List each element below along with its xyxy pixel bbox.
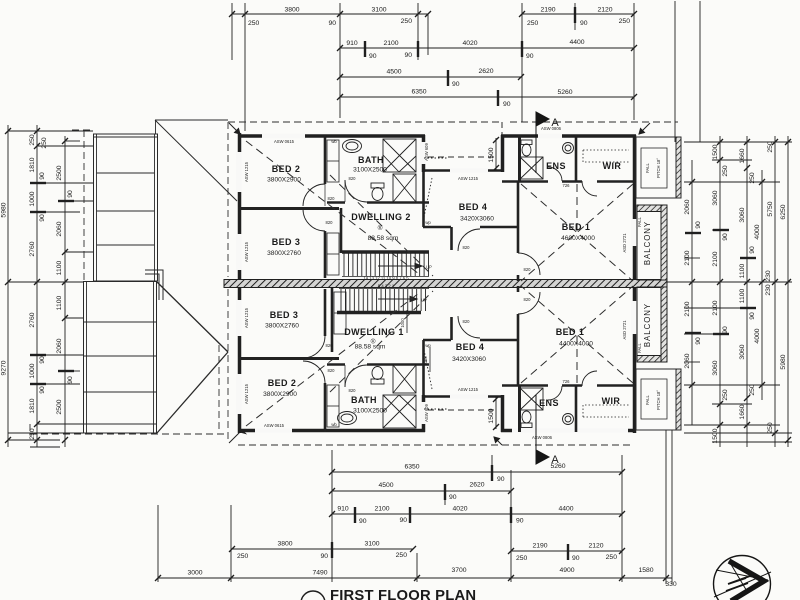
svg-text:4400: 4400 [569,39,584,46]
svg-text:BED 3: BED 3 [270,310,299,320]
svg-text:90: 90 [695,337,702,345]
left dimension connector lines [8,131,93,447]
svg-text:DWELLING 1: DWELLING 1 [344,327,404,337]
nook dim 1500 lower [488,396,499,430]
wall ens west lower [518,386,521,432]
svg-text:5260: 5260 [557,89,572,96]
stair upper flight [342,252,429,277]
door arc bed3 upper [303,209,325,231]
svg-text:90: 90 [722,326,729,334]
svg-text:FALL: FALL [645,162,650,172]
bottom dimension tier 2190/2120 [508,543,625,563]
svg-text:A: A [551,117,559,129]
svg-text:DWELLING 2: DWELLING 2 [351,212,411,222]
svg-text:wp: wp [425,343,431,348]
svg-text:5980: 5980 [1,202,8,217]
sliding door ASD 2721 balcony upper [631,219,637,246]
svg-text:2620: 2620 [478,68,493,75]
svg-text:2760: 2760 [29,312,36,327]
wall ens/wir divider lower [575,386,578,432]
svg-text:7490: 7490 [312,570,327,577]
bottom dimension tier 910/2100/4020/4400 [329,506,625,526]
svg-text:ENS: ENS [546,161,566,171]
svg-text:ASW 1215: ASW 1215 [244,241,249,262]
svg-text:ENS: ENS [539,398,559,408]
bath fixtures lower (mirror) [338,365,417,428]
svg-text:250: 250 [248,20,260,27]
sliding door ASD 2721 balcony lower [631,301,637,334]
left dimension column outer (5980/9270) [1,125,12,447]
svg-text:1500: 1500 [488,408,495,423]
wall ens/wir south upper [502,180,636,183]
svg-text:3060: 3060 [712,360,719,375]
right roof box lower (fall pitch 18) [636,369,681,430]
svg-text:3060: 3060 [739,207,746,222]
eaves corner arrows [229,123,650,445]
svg-text:FIRST FLOOR PLAN: FIRST FLOOR PLAN [330,588,476,600]
wall bed3 right upper [325,208,341,278]
svg-text:3000: 3000 [187,570,202,577]
svg-text:1100: 1100 [739,263,746,278]
title bubble circle [301,591,325,600]
wall bed3 right lower [325,288,332,352]
svg-text:910: 910 [337,506,349,513]
ens fixtures upper [520,140,574,179]
svg-text:1000: 1000 [29,191,36,206]
svg-text:90: 90 [39,386,46,394]
svg-text:726: 726 [563,183,571,188]
svg-text:820: 820 [349,388,357,393]
svg-text:820: 820 [524,267,532,272]
svg-text:3800X2900: 3800X2900 [263,391,297,398]
svg-text:FALL: FALL [637,342,642,352]
window ASW 609 nook side upper [420,142,426,164]
wall bed4 north + door jamb lower [423,317,519,340]
balcony upper dwelling [637,205,667,280]
wall bed2/bath lower [324,383,327,432]
svg-text:1500: 1500 [488,147,495,162]
svg-text:1810: 1810 [29,157,36,172]
bottom dimension extension lines [158,430,672,584]
svg-text:90: 90 [39,356,46,364]
bath fixtures upper (basin, wc, shower) [343,139,417,202]
wall ens/wir divider upper [575,135,578,181]
window ASW 609 nook side lower [420,402,426,424]
bottom dimension tier 4500/2620 [329,482,514,502]
svg-text:90: 90 [503,101,511,108]
left upper roof (garage roof panels) [94,134,158,281]
svg-text:90: 90 [328,20,336,27]
door arc ens upper [548,167,562,181]
svg-text:2060: 2060 [56,221,63,236]
stair void dotted lower [423,345,447,409]
svg-text:2760: 2760 [29,241,36,256]
roof lines dashed bed1 lower [521,286,633,383]
svg-text:BED 2: BED 2 [272,164,301,174]
svg-text:3800: 3800 [277,541,292,548]
wall bed1 west upper [517,181,520,281]
robe bed3 upper [327,233,339,275]
window left wall bed3 upper [236,234,242,270]
svg-text:14 13 12 11 10 9 8 7 6 5: 14 13 12 11 10 9 8 7 6 5 [363,275,409,280]
wall bed2/bed3 divider lower [238,357,339,360]
svg-text:250: 250 [749,384,756,396]
svg-text:90: 90 [516,518,524,525]
svg-text:BED 1: BED 1 [556,327,585,337]
svg-text:250: 250 [767,141,774,153]
svg-text:250: 250 [237,553,249,560]
svg-text:BALCONY: BALCONY [643,303,652,347]
north arrow [714,556,772,600]
svg-text:WIR: WIR [603,161,622,171]
svg-text:BALCONY: BALCONY [643,221,652,265]
svg-text:910: 910 [346,40,358,47]
svg-text:90: 90 [572,555,580,562]
svg-text:BATH: BATH [358,155,384,165]
exterior wall top (dwelling 2) [238,135,636,172]
svg-text:3420X3060: 3420X3060 [460,216,494,223]
svg-text:4000: 4000 [754,328,761,343]
svg-text:250: 250 [401,18,413,25]
svg-text:3800X2760: 3800X2760 [267,250,301,257]
right dimension column a (2060/90/2100 pairs) [684,160,702,425]
stair lower up-arrow [378,296,417,301]
bottom dimension tier 3800/3100 [229,541,416,561]
roof line dashed diagonal lower-left [246,291,433,426]
svg-text:2100: 2100 [684,301,691,316]
svg-text:3800X2760: 3800X2760 [265,323,299,330]
window left wall bed2 lower [236,374,242,414]
nook eaves dashes lower [428,409,494,411]
svg-text:UP: UP [426,265,432,270]
dimension extension lines top-left [232,1,700,142]
svg-text:4900: 4900 [559,567,574,574]
svg-text:4400X4000: 4400X4000 [559,341,593,348]
svg-text:BED 1: BED 1 [562,222,591,232]
svg-text:88.58 sqm: 88.58 sqm [355,344,386,351]
door arc bed4 lower [458,316,480,338]
svg-text:820: 820 [328,196,336,201]
svg-text:2060: 2060 [423,356,428,366]
bottom dimension tier 5260/6350 [329,463,625,483]
svg-text:726: 726 [563,379,571,384]
roof line dashed diagonal upper-left [246,141,433,276]
top dimension tier 4 (6350 / 5260) [337,89,637,109]
svg-text:1500: 1500 [712,144,719,159]
wall bath/bed4 vertical lower [422,340,425,395]
svg-text:3100: 3100 [364,541,379,548]
svg-text:2060: 2060 [56,338,63,353]
svg-text:250: 250 [29,134,36,146]
svg-text:1500: 1500 [712,428,719,443]
svg-text:5750: 5750 [767,201,774,216]
left upper roof valley line [155,120,237,201]
svg-text:4500: 4500 [386,69,401,76]
svg-text:90: 90 [67,376,74,384]
wir shelving dotted lower [583,405,629,417]
svg-text:820: 820 [463,245,471,250]
svg-text:6250: 6250 [780,204,787,219]
window ASW 1215 bed4 nook wall lower [450,394,488,398]
svg-text:820: 820 [326,343,334,348]
wall bath north lower [327,363,429,366]
svg-text:3700: 3700 [451,567,466,574]
window left wall bed2 upper [236,152,242,192]
exterior wall right [633,135,637,433]
ens fixtures lower [520,388,574,428]
svg-text:230: 230 [765,284,772,296]
wall bed2/bed3 divider upper [238,207,339,210]
svg-text:250: 250 [606,554,618,561]
svg-text:2100: 2100 [383,40,398,47]
svg-text:250: 250 [41,137,48,149]
svg-text:ASD 2721: ASD 2721 [622,320,627,340]
svg-text:ASW 0615: ASW 0615 [264,423,285,428]
svg-text:250: 250 [527,20,539,27]
svg-text:88.58 sqm: 88.58 sqm [368,235,399,242]
svg-text:6350: 6350 [404,464,419,471]
svg-text:820: 820 [463,319,471,324]
door arc bed2 lower [303,361,325,383]
svg-text:ASW 1215: ASW 1215 [458,387,479,392]
svg-text:BATH: BATH [351,395,377,405]
svg-text:3420X3060: 3420X3060 [452,356,486,363]
svg-text:250: 250 [767,422,774,434]
svg-text:90: 90 [399,517,407,524]
svg-text:3100X2500: 3100X2500 [353,408,387,415]
svg-text:1660: 1660 [739,404,746,419]
svg-text:4020: 4020 [452,506,467,513]
svg-text:90: 90 [452,81,460,88]
svg-text:2190: 2190 [532,543,547,550]
window ASW 0615 bed2 bottom wall [255,428,292,432]
svg-text:2500: 2500 [56,165,63,180]
svg-text:BED 3: BED 3 [272,237,301,247]
svg-text:2100: 2100 [374,506,389,513]
svg-text:ASD 2721: ASD 2721 [622,233,627,253]
top dimension tier 1 (3800 / 3100) [229,7,431,28]
left dimension column inner (2500/90/2060/1100 + mirror) [41,136,74,447]
svg-text:2100: 2100 [712,251,719,266]
svg-text:3100X2500: 3100X2500 [353,167,387,174]
svg-text:4000: 4000 [754,224,761,239]
svg-text:90: 90 [722,233,729,241]
svg-text:2120: 2120 [597,7,612,14]
svg-text:230: 230 [765,270,772,282]
svg-text:ASW 609: ASW 609 [424,403,429,421]
door arc wir upper [582,181,597,196]
nook eaves dashes upper [428,122,502,157]
right dimension column b (1500/2060/90/2100 + mirror) [712,136,729,447]
svg-text:3100: 3100 [371,7,386,14]
svg-text:250: 250 [516,555,528,562]
svg-text:820: 820 [328,368,336,373]
robe bed2 lower [327,385,339,427]
svg-text:2120: 2120 [588,543,603,550]
svg-text:5980: 5980 [780,354,787,369]
svg-text:90: 90 [39,172,46,180]
top dimension tier 3 (4500 / 2620) [337,68,524,88]
svg-text:90: 90 [359,518,367,525]
internal dim 2060 lower [423,347,430,372]
svg-text:250: 250 [722,165,729,177]
svg-text:3800X2900: 3800X2900 [267,177,301,184]
wall bed2/bath upper [324,135,327,184]
svg-text:ASW 0806: ASW 0806 [532,435,553,440]
top dimension tier 2 (910 / 2100 / 4020 / 4400) [337,39,637,60]
svg-text:90: 90 [580,20,588,27]
door arc bath lower [345,365,367,387]
svg-text:9270: 9270 [1,360,8,375]
svg-text:2620: 2620 [469,482,484,489]
svg-text:250: 250 [396,552,408,559]
svg-text:820: 820 [524,297,532,302]
door arc bed1 lower [518,292,540,314]
right dimension column c (1660/3060/1100 + mirror) [739,136,756,447]
robe bed2 upper [327,140,339,182]
svg-text:2060: 2060 [684,353,691,368]
svg-text:ASW 0615: ASW 0615 [274,139,295,144]
svg-text:1000: 1000 [29,363,36,378]
svg-text:ASW 1215: ASW 1215 [458,176,479,181]
svg-text:90: 90 [369,53,377,60]
right roof box upper (fall pitch 18) [636,137,681,198]
wir shelving dotted upper [583,150,629,162]
wall bath south upper [327,201,429,204]
door arc bed1 upper [518,253,540,275]
section marker A bottom [536,395,549,464]
svg-text:1100: 1100 [56,260,63,275]
svg-text:90: 90 [749,312,756,320]
svg-text:330: 330 [665,581,677,588]
svg-text:90: 90 [67,190,74,198]
svg-text:ASW 1215: ASW 1215 [244,307,249,328]
svg-text:250: 250 [722,389,729,401]
svg-text:4500: 4500 [378,482,393,489]
svg-text:3800: 3800 [284,7,299,14]
svg-text:1810: 1810 [29,398,36,413]
svg-text:6350: 6350 [411,89,426,96]
stair upper up-arrow [378,263,422,268]
right dimension column d (4000 / 4000) [754,170,772,400]
svg-text:3060: 3060 [712,190,719,205]
svg-text:2500: 2500 [56,399,63,414]
roof junction step [145,270,163,300]
svg-text:BED 4: BED 4 [459,202,488,212]
svg-text:820: 820 [349,176,357,181]
wall bed4 south + door jamb upper [423,227,519,250]
eaves dashed outline of roof over [30,122,678,445]
nook dim 1500 upper [488,137,499,171]
svg-text:BED 2: BED 2 [268,378,297,388]
svg-text:®: ® [378,224,383,232]
window ASW 1215 bed4 nook wall upper [450,168,488,172]
svg-text:WIR: WIR [602,396,621,406]
window ASW 0615 bed2 top wall [262,134,305,138]
door arc bath upper [345,180,367,202]
svg-text:820: 820 [326,220,334,225]
svg-text:1660: 1660 [739,148,746,163]
balcony lower dwelling [637,287,667,362]
door arc ens lower [548,386,562,400]
exterior wall bottom (dwelling 1) [238,395,636,432]
svg-text:250: 250 [619,18,631,25]
svg-text:2190: 2190 [540,7,555,14]
svg-text:PITCH 18°: PITCH 18° [656,158,661,178]
svg-text:BED 4: BED 4 [456,342,485,352]
svg-text:2060: 2060 [684,199,691,214]
svg-text:wp: wp [425,220,431,225]
svg-text:90: 90 [449,494,457,501]
svg-text:5 4 3 2 1: 5 4 3 2 1 [378,283,395,288]
svg-text:A: A [551,454,559,466]
left dimension column middle (250/1810/90/1000/90/2760 + mirror) [29,125,46,447]
door arc bed3 lower [303,336,325,358]
left lower roof hip lines [157,282,228,433]
svg-text:wb: wb [331,422,337,427]
stair lower flight [337,289,429,313]
exterior wall left [238,133,242,433]
wall bed1 west lower [517,286,520,386]
door arc bed2 upper [303,184,325,206]
right dimension connector lines [640,142,792,442]
top dimension tier 1 right (2190 / 2120) [519,7,637,28]
svg-text:4020: 4020 [462,40,477,47]
wall bath/bed4 vertical upper [422,172,425,227]
window left wall bed3 lower [236,300,242,336]
svg-text:90: 90 [320,553,328,560]
svg-text:4600X4000: 4600X4000 [561,235,595,242]
svg-text:90: 90 [526,53,534,60]
door arc wir lower [582,371,597,386]
svg-text:1580: 1580 [638,567,653,574]
roof lines dashed bed1 upper [521,184,633,281]
wall ens/wir north lower [502,384,636,387]
stair void dotted upper [423,158,447,222]
party wall (hatched, between dwellings) [224,280,667,288]
door arc bed4 upper [458,229,480,251]
window bottom wall bed1 (long) [512,428,628,432]
svg-text:1100: 1100 [56,295,63,310]
bottom dimension tier 3000/7490/3700/4900/1580 [155,567,677,588]
svg-text:90: 90 [695,221,702,229]
svg-text:FALL: FALL [645,394,650,404]
internal dim 1000 lower [400,310,407,333]
right dimension column outer (5750/6250/5980) [767,136,791,447]
window ASW 0806 bed1 top wall [538,134,562,138]
svg-text:4400: 4400 [558,506,573,513]
svg-text:ASW 1215: ASW 1215 [244,383,249,404]
svg-text:3060: 3060 [739,344,746,359]
svg-text:FALL: FALL [637,216,642,226]
robe bed3 lower [334,292,346,334]
svg-text:90: 90 [39,214,46,222]
left lower roof (garage roof panels) [84,282,157,434]
svg-text:ASW 1215: ASW 1215 [244,161,249,182]
svg-text:90: 90 [497,476,505,483]
svg-text:90: 90 [749,246,756,254]
wall ens west upper [518,135,521,181]
svg-text:90: 90 [404,52,412,59]
svg-text:1100: 1100 [739,288,746,303]
svg-text:PITCH 18°: PITCH 18° [656,390,661,410]
section marker A top [536,112,549,173]
